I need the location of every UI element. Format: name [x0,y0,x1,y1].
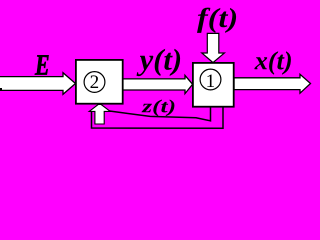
label E [35,55,49,74]
label z(t) [142,100,175,117]
feedback up-arrow into block 2 [89,104,110,124]
feedback wire outer (block 1 bottom, around below, to up-arrow tail) [92,106,224,128]
label y(t) [137,49,181,76]
digit 2 [91,75,99,88]
output arrow x(t) [234,74,311,93]
disturbance arrow f(t) into block 1 top [202,33,225,62]
input arrow E [0,73,76,95]
circle around 1 [200,69,221,90]
label x(t) [254,51,291,74]
digit 1 [207,75,214,88]
block 2 (square) [76,60,123,104]
label f(t) [197,8,236,33]
signal arrow y(t) between blocks [122,75,193,93]
block 1 (square) [193,63,234,107]
tail nub at image edge [0,88,2,91]
feedback wire inner z(t) (block 1 bottom to up-arrow) [104,106,211,121]
circle around 2 [84,72,105,93]
